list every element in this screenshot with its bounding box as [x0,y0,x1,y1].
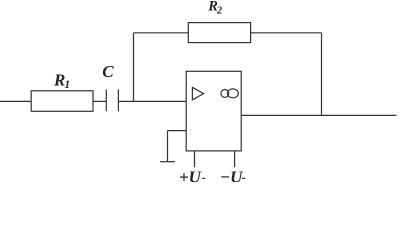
wire feedback branch rising from node A [133,33,135,102]
wire input from left edge to R1 [0,100,31,102]
label R1 [53,70,70,91]
op-amp U1 body [186,71,241,151]
wire output from U1 to right edge [241,114,396,116]
label R2 [207,0,222,16]
wire non-inverting input to ground stub [168,130,187,132]
label -U supply [220,168,246,187]
capacitor C left plate [105,90,107,112]
resistor R2 [188,23,250,43]
svg-text:C: C [102,62,114,81]
op-amp U1 amplifier triangle symbol [192,87,203,100]
wire R2 to right feedback corner [251,32,322,34]
svg-text:2: 2 [216,5,222,16]
wire top feedback run to R2 [134,32,189,34]
label +U supply [179,168,205,187]
wire C to op-amp inverting input through node A [118,100,186,102]
svg-text:−U: −U [220,168,243,182]
wire ground drop vertical [167,131,169,162]
pin +U supply [194,151,196,167]
svg-text:+U: +U [179,168,202,182]
op-amp U1 infinite gain symbol [221,89,238,98]
resistor R1 [31,91,93,112]
pin -U supply [234,151,236,167]
wire R1 to capacitor C [93,100,106,102]
capacitor C right plate [117,90,119,112]
ground [160,161,175,163]
svg-text:1: 1 [64,79,70,91]
wire feedback right vertical down to output node [321,33,323,116]
